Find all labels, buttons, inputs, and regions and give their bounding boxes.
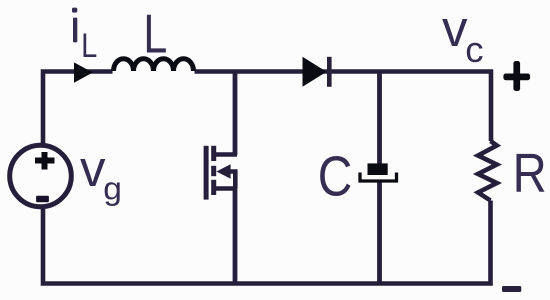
capacitor C top plate — [368, 163, 388, 175]
minus sign output — [502, 286, 521, 292]
MOSFET body connector — [229, 172, 235, 189]
MOSFET source stub — [213, 186, 237, 191]
wire capacitor branch top — [377, 72, 382, 170]
minus sign inside source — [36, 196, 49, 203]
svg-text:v: v — [442, 0, 468, 57]
plus sign inside source — [35, 152, 55, 170]
voltage source Vg circle — [10, 145, 72, 207]
svg-text:L: L — [143, 5, 167, 65]
svg-text:C: C — [318, 145, 353, 209]
svg-text:c: c — [465, 29, 483, 70]
resistor R zigzag — [478, 141, 497, 201]
label i (current) dot — [72, 8, 77, 13]
inductor L — [114, 59, 194, 71]
MOSFET drain stub — [213, 152, 237, 157]
current arrow iL — [74, 62, 93, 82]
svg-text:g: g — [103, 170, 122, 206]
wire top rail right segment from inductor to right corner, down to resistor — [195, 72, 492, 142]
MOSFET Q1 gate bar — [204, 146, 209, 200]
diode D1 triangle — [303, 57, 327, 87]
MOSFET body arrow — [216, 164, 230, 178]
wire bottom rail from source to right corner, up to resistor — [43, 201, 491, 284]
svg-text:v: v — [80, 140, 106, 197]
wire MOSFET source branch — [233, 189, 238, 284]
svg-text:L: L — [81, 26, 97, 65]
MOSFET channel bar segments — [211, 146, 216, 161]
wire capacitor branch bottom — [377, 181, 382, 284]
capacitor C bottom plate bracket — [360, 173, 397, 182]
label i (current) stem — [73, 18, 77, 43]
wire MOSFET drain branch — [233, 72, 238, 156]
plus sign output — [513, 61, 520, 91]
svg-text:R: R — [513, 142, 547, 203]
wire top rail left segment from source to inductor — [43, 72, 113, 146]
diode cathode bar — [327, 57, 332, 87]
